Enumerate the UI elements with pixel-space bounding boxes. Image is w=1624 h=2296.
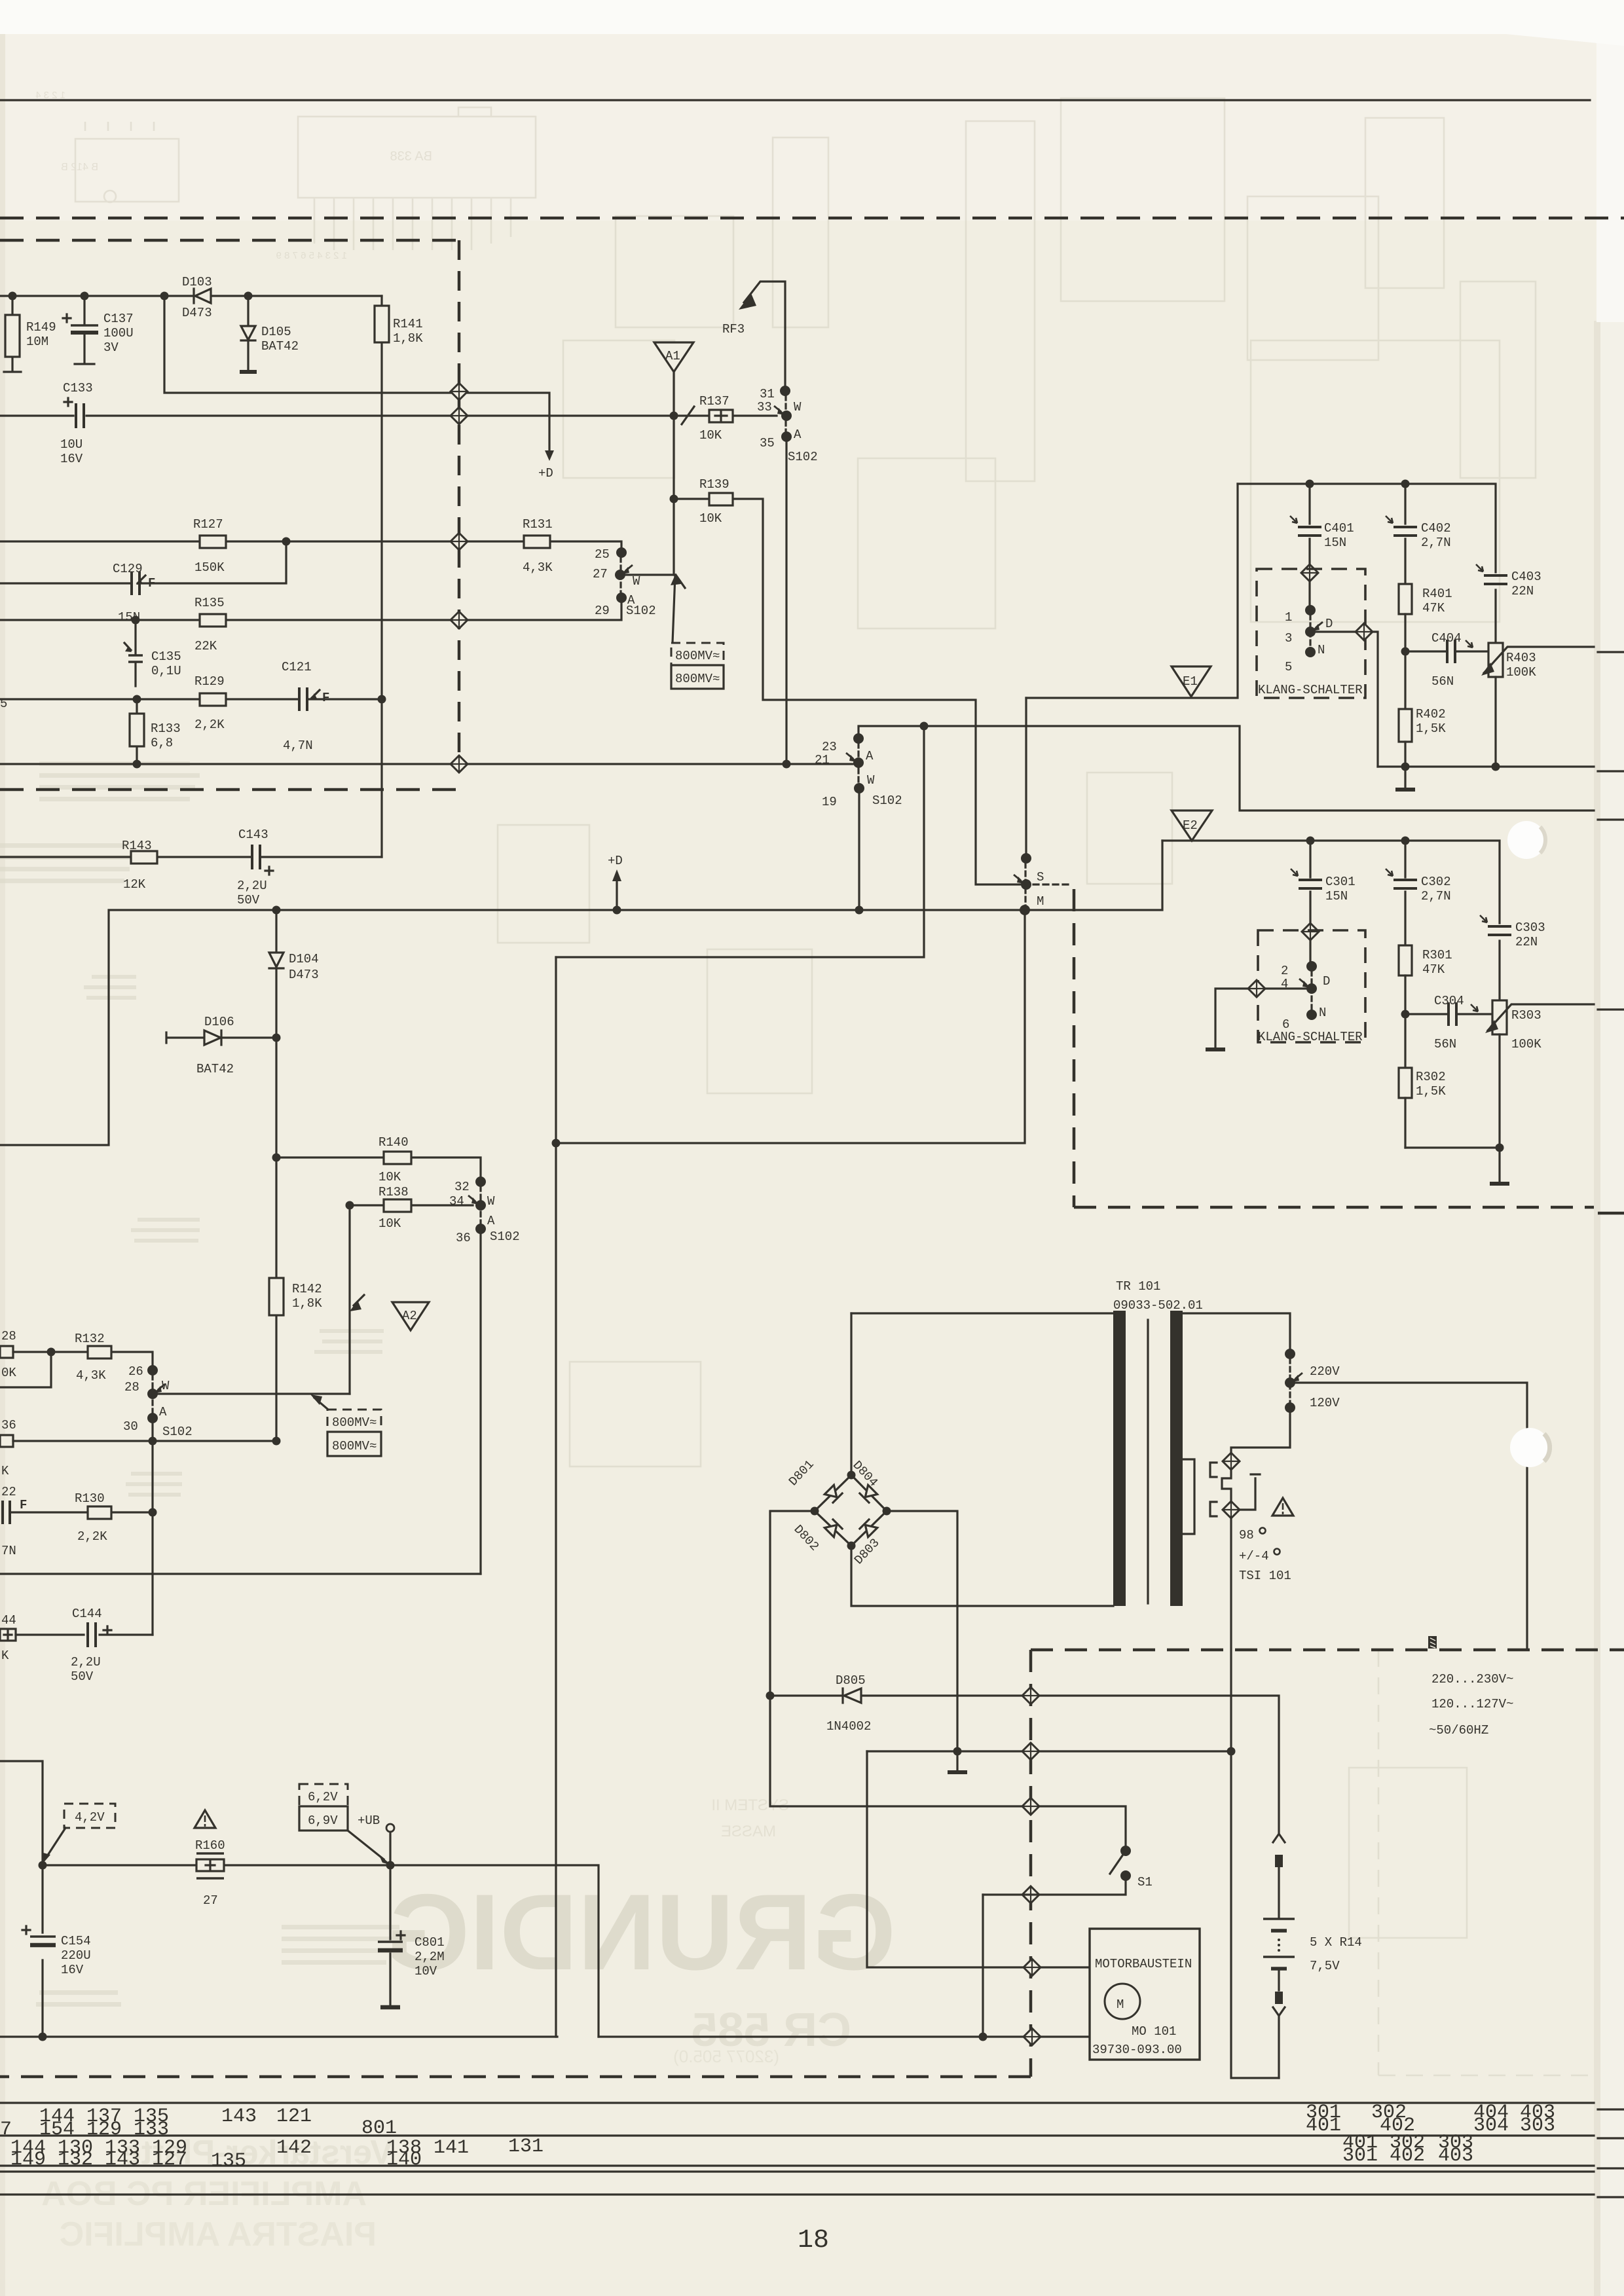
svg-text:S102: S102: [872, 793, 902, 808]
ground R402: [1404, 767, 1406, 788]
connector diamond D805: [1022, 1687, 1039, 1704]
svg-text:N: N: [1319, 1006, 1326, 1020]
svg-text:7,5V: 7,5V: [1310, 1959, 1340, 1973]
svg-text:C801: C801: [415, 1935, 445, 1950]
svg-text:30: 30: [123, 1419, 138, 1434]
svg-text:10U: 10U: [60, 437, 83, 452]
svg-text:RF3: RF3: [722, 322, 745, 337]
svg-text:2,7N: 2,7N: [1421, 889, 1451, 903]
diode D801: [824, 1485, 842, 1503]
wire pin23 up to klang2 feed: [858, 726, 1594, 811]
diode D803: [860, 1520, 877, 1537]
stub connector left C144: [0, 1629, 16, 1641]
wire 2201 row: [13, 1440, 276, 1442]
svg-text:TSI 101: TSI 101: [1239, 1569, 1291, 1583]
svg-text:50V: 50V: [237, 893, 260, 907]
section divider power dashed: [0, 1650, 1624, 2077]
resistor R131: [524, 536, 550, 548]
resistor R127: [200, 536, 226, 548]
svg-text:1 2 3 4 5 6 7 8 9: 1 2 3 4 5 6 7 8 9: [276, 250, 347, 261]
wire long ground vertical: [555, 957, 557, 2037]
resistor R140: [276, 1157, 481, 1182]
node pin35 column joins: [783, 760, 791, 769]
svg-text:F: F: [20, 1498, 27, 1512]
svg-text:1N4002: 1N4002: [826, 1719, 871, 1734]
svg-text:12K: 12K: [123, 877, 146, 892]
resistor R137: [709, 410, 733, 422]
capacitor C143: [252, 845, 260, 869]
svg-text:C133: C133: [63, 381, 93, 395]
svg-text:R403: R403: [1506, 651, 1536, 665]
svg-text:16V: 16V: [61, 1963, 84, 1977]
section divider dashed mid-right L: [1074, 889, 1594, 1207]
node D106/D104: [272, 1034, 281, 1042]
svg-text:S102: S102: [490, 1230, 520, 1244]
svg-text:29: 29: [595, 604, 610, 618]
wire secondary lower: [1231, 1408, 1290, 1454]
wire klang2 lever left: [1265, 987, 1312, 989]
svg-text:10K: 10K: [699, 511, 722, 526]
wire M net down to ground row: [556, 910, 1025, 1143]
svg-text:15N: 15N: [1325, 889, 1348, 903]
svg-text:22N: 22N: [1515, 935, 1538, 949]
svg-text:MO 101: MO 101: [1132, 2024, 1176, 2039]
warning triangle 2: [1272, 1498, 1293, 1516]
node +D arrow: [545, 450, 554, 461]
svg-text:A1: A1: [665, 349, 680, 363]
wire top rail: [0, 295, 382, 297]
svg-text:C154: C154: [61, 1934, 91, 1948]
antenna arrow RF3: [744, 282, 785, 391]
svg-text:10K: 10K: [378, 1216, 401, 1231]
svg-text:100K: 100K: [1506, 665, 1536, 680]
ground R302 row: [1498, 1148, 1500, 1182]
svg-text:MOTORBAUSTEIN: MOTORBAUSTEIN: [1095, 1957, 1192, 1971]
svg-text:2,2K: 2,2K: [194, 718, 225, 732]
svg-text:3: 3: [1285, 631, 1292, 646]
section divider dashed top full: [0, 217, 1624, 220]
svg-text:A: A: [159, 1405, 167, 1419]
node R130 column: [149, 1508, 157, 1517]
svg-text:15N: 15N: [1324, 536, 1346, 550]
svg-text:R143: R143: [122, 839, 152, 853]
svg-text:S102: S102: [162, 1425, 193, 1439]
svg-text:100U: 100U: [103, 326, 134, 340]
ground klang2: [1206, 1048, 1225, 1051]
wire R132 row: [13, 1352, 153, 1370]
potentiometer R303: [1492, 1000, 1507, 1034]
svg-text:7N: 7N: [1, 1544, 16, 1558]
punch hole 2: [1510, 1428, 1549, 1467]
svg-text:47K: 47K: [1422, 601, 1445, 615]
svg-text:6,8: 6,8: [151, 736, 173, 750]
svg-text:135: 135: [211, 2150, 246, 2172]
svg-text:5: 5: [0, 697, 7, 711]
diode D103: [195, 289, 211, 303]
connector diamond C133 wire: [451, 407, 468, 424]
svg-text:F: F: [322, 691, 329, 705]
wire long row 2404: [0, 1573, 481, 1575]
wire S102 lever row: [0, 763, 853, 765]
svg-text:M: M: [1037, 894, 1044, 909]
svg-text:R130: R130: [75, 1491, 105, 1506]
node C402: [1401, 480, 1410, 488]
resistor R130: [88, 1506, 111, 1519]
svg-text:C121: C121: [282, 660, 312, 674]
node rail-D105: [244, 292, 253, 301]
svg-text:401: 401: [1306, 2115, 1341, 2137]
voltage box 4,2V: [64, 1804, 115, 1828]
svg-text:2,2U: 2,2U: [71, 1655, 101, 1669]
svg-text:C302: C302: [1421, 875, 1451, 889]
node C401: [1306, 480, 1314, 488]
wire M row: [0, 910, 1025, 1145]
connector diamond motor return: [1024, 2028, 1041, 2045]
node R402 gnd: [1401, 763, 1410, 771]
svg-text:GRUNDIG: GRUNDIG: [386, 1872, 896, 1992]
node 30 column: [149, 1437, 157, 1446]
svg-text:B 412 B: B 412 B: [61, 162, 98, 173]
svg-text:150K: 150K: [194, 560, 225, 575]
svg-text:MASSE: MASSE: [721, 1823, 776, 1840]
svg-text:800MV≈: 800MV≈: [675, 649, 720, 663]
resistor R143: [131, 851, 157, 864]
node C301: [1306, 837, 1315, 845]
wire R138 column down: [348, 1205, 350, 1394]
svg-text:1,5K: 1,5K: [1416, 1084, 1446, 1099]
svg-text:403: 403: [1438, 2145, 1473, 2167]
arrow into A2 line: [350, 1300, 361, 1311]
resistor R135: [200, 614, 226, 627]
wire secondary return row: [867, 1750, 1231, 1752]
svg-text:C129: C129: [113, 562, 143, 576]
svg-text:4,3K: 4,3K: [523, 560, 553, 575]
switch klang2 pins 2/4/6: [1309, 940, 1311, 962]
wire A1 wiper slant: [673, 575, 675, 643]
resistor R149: [4, 296, 21, 372]
svg-text:301 402: 301 402: [1342, 2145, 1425, 2167]
svg-text:6,2V: 6,2V: [308, 1790, 338, 1804]
connector diamond S1 return: [1022, 1886, 1039, 1903]
capacitor C129: [0, 541, 286, 583]
svg-text:D105: D105: [261, 325, 291, 339]
wire R139: [674, 499, 1022, 884]
thermal fuse TSI101: [1210, 1463, 1217, 1477]
wire wiper 27 to A1 line: [620, 574, 675, 575]
svg-text:18: 18: [798, 2226, 829, 2255]
node C404: [1401, 647, 1410, 656]
potentiometer R403: [1488, 643, 1503, 677]
svg-text:R401: R401: [1422, 587, 1452, 601]
svg-text:~50/60HZ: ~50/60HZ: [1429, 1723, 1488, 1738]
wire S/M column: [1025, 698, 1027, 858]
node takeoff to level chain: [920, 722, 929, 731]
capacitor C801: [389, 1865, 391, 2005]
amp arrow E2: [1172, 811, 1212, 841]
node R403 bottom: [1492, 763, 1500, 771]
svg-text:32: 32: [454, 1180, 470, 1194]
svg-text:R137: R137: [699, 394, 729, 409]
connector diamond C401: [1301, 564, 1318, 581]
svg-text:19: 19: [822, 795, 837, 809]
capacitor C301: [1309, 841, 1311, 923]
svg-text:S1: S1: [1137, 1875, 1153, 1889]
node R129 wire / R133: [133, 695, 141, 704]
svg-text:2,2M: 2,2M: [415, 1950, 445, 1964]
svg-text:A2: A2: [402, 1309, 417, 1323]
diode D804: [860, 1485, 877, 1503]
wire R127/R131: [0, 541, 621, 553]
svg-text:C144: C144: [72, 1607, 102, 1621]
svg-text:35: 35: [760, 436, 775, 450]
node A1/R139: [670, 495, 678, 503]
svg-text:1,8K: 1,8K: [292, 1296, 322, 1311]
svg-text:2,2U: 2,2U: [237, 879, 267, 893]
node pin19 joins: [855, 906, 864, 915]
node C304: [1401, 1010, 1410, 1019]
svg-text:S: S: [1037, 870, 1044, 884]
node rail-R149: [9, 292, 17, 301]
punch hole 1: [1507, 821, 1545, 859]
svg-text:28: 28: [1, 1329, 16, 1343]
level box 800MV dashed (ch1): [671, 643, 724, 665]
svg-text:K: K: [1, 1649, 9, 1663]
svg-text:220...230V~: 220...230V~: [1431, 1672, 1513, 1686]
svg-text:4,3K: 4,3K: [76, 1368, 106, 1383]
svg-text:56N: 56N: [1431, 674, 1454, 689]
svg-text:M: M: [1116, 1997, 1124, 2012]
node gnd tap: [953, 1747, 962, 1756]
resistor R141: [380, 296, 382, 857]
capacitor C121: [299, 687, 307, 711]
svg-text:D103: D103: [182, 275, 212, 289]
svg-text:F: F: [148, 576, 155, 591]
wire bridge right: [887, 1511, 957, 1751]
diode D105: [247, 296, 249, 371]
svg-text:28: 28: [124, 1380, 139, 1394]
wire E2 row: [1162, 841, 1500, 1000]
connector diamond C301: [1302, 923, 1319, 940]
node A1/C133: [670, 412, 678, 420]
amp arrow A1: [654, 342, 693, 372]
transformer TR101 core: [1113, 1311, 1126, 1606]
wire R130 row: [10, 1511, 153, 1513]
svg-text:R127: R127: [193, 517, 223, 532]
svg-text:10V: 10V: [415, 1964, 437, 1978]
wire D104 column down: [275, 1038, 277, 1441]
wire C133 row: [0, 414, 777, 416]
svg-text:303: 303: [1520, 2115, 1555, 2137]
node D104 top: [272, 906, 281, 915]
wire klang1 top: [1238, 484, 1496, 643]
capacitor C404: [1405, 650, 1488, 652]
node R303 gnd: [1496, 1144, 1504, 1152]
svg-text:C303: C303: [1515, 920, 1545, 935]
resistor R401: [1399, 584, 1412, 614]
secondary winding lower loop: [1183, 1459, 1194, 1534]
svg-text:27: 27: [203, 1893, 218, 1908]
switch S102 pins 31/33/35: [780, 386, 790, 396]
svg-text:220V: 220V: [1310, 1364, 1340, 1379]
switch S102 pins 32/34/36: [475, 1176, 486, 1187]
wire S feed dashed right: [1033, 883, 1073, 885]
capacitor C137: [75, 296, 94, 364]
svg-text:50V: 50V: [71, 1669, 94, 1684]
node rail-C137: [81, 292, 89, 301]
svg-text:N: N: [1318, 643, 1325, 657]
ground C801: [380, 2005, 400, 2010]
supply node +UB: [386, 1824, 394, 1832]
wire S1 return vertical: [982, 1895, 984, 2037]
svg-text:121: 121: [276, 2105, 312, 2128]
section divider dashed mid-left: [0, 788, 460, 792]
wire bridge left to box: [770, 1511, 1126, 1851]
svg-text:0K: 0K: [1, 1366, 16, 1380]
svg-text:R135: R135: [194, 596, 225, 610]
capacitor C135: [134, 620, 136, 686]
wire level chain down-left: [556, 726, 924, 957]
svg-text:26: 26: [128, 1364, 143, 1379]
capacitor C401: [1308, 484, 1310, 564]
node C154 rail: [39, 2033, 47, 2041]
svg-text:+/-4: +/-4: [1239, 1549, 1269, 1563]
svg-text:220U: 220U: [61, 1948, 91, 1963]
svg-text:140: 140: [386, 2149, 422, 2171]
svg-text:TR 101: TR 101: [1116, 1279, 1160, 1294]
wire A1 vertical: [673, 372, 674, 575]
resistor R129: [200, 693, 226, 706]
switch S/M: [1021, 853, 1031, 864]
svg-text:W: W: [867, 773, 875, 788]
svg-text:R303: R303: [1511, 1008, 1541, 1023]
wire bridge top: [850, 1313, 852, 1475]
svg-text:143: 143: [221, 2105, 257, 2128]
svg-text:BAT42: BAT42: [261, 339, 299, 354]
svg-text:5: 5: [1285, 660, 1292, 674]
svg-text:34: 34: [449, 1194, 464, 1209]
svg-text:R131: R131: [523, 517, 553, 532]
supply arrow +D up: [616, 880, 618, 910]
svg-text:D: D: [1325, 617, 1333, 631]
wire lever 28 to A2 column: [153, 1393, 350, 1394]
node +D up: [613, 906, 621, 915]
svg-text:R302: R302: [1416, 1070, 1446, 1084]
connector diamond lever row: [451, 756, 468, 773]
svg-text:W: W: [487, 1194, 495, 1209]
svg-text:R133: R133: [151, 721, 181, 736]
level box 800MV solid (ch1): [671, 665, 724, 689]
svg-text:36: 36: [1, 1418, 16, 1432]
svg-text:09033-502.01: 09033-502.01: [1113, 1298, 1203, 1313]
svg-text:5 X R14: 5 X R14: [1310, 1935, 1362, 1950]
svg-text:56N: 56N: [1434, 1037, 1456, 1051]
svg-text:(32077 505.0): (32077 505.0): [673, 2047, 779, 2066]
svg-text:39730-093.00: 39730-093.00: [1092, 2043, 1182, 2057]
wire pin19 down to M-row: [858, 788, 860, 910]
svg-text:4,2V: 4,2V: [75, 1810, 105, 1825]
svg-text:E2: E2: [1183, 818, 1198, 833]
amp arrow A2: [392, 1302, 429, 1330]
resistor R138: [350, 1204, 473, 1206]
svg-text:R301: R301: [1422, 948, 1452, 962]
svg-text:R149: R149: [26, 320, 56, 335]
faint mirrored text blocks: [0, 761, 403, 2007]
wire klang1 lever out: [1310, 630, 1356, 632]
wire ground rail: [0, 2035, 1090, 2037]
svg-text:47K: 47K: [1422, 962, 1445, 977]
diode D104: [275, 910, 277, 1038]
svg-text:120V: 120V: [1310, 1396, 1340, 1410]
node R140 takeoff: [272, 1154, 281, 1162]
svg-text:R142: R142: [292, 1282, 322, 1296]
wire primary top: [851, 1312, 1113, 1314]
wire R129/C121: [0, 698, 382, 700]
svg-text:C404: C404: [1431, 631, 1462, 646]
wire S1 bottom row: [983, 1876, 1126, 1895]
svg-text:R129: R129: [194, 674, 225, 689]
svg-text:A: A: [487, 1214, 495, 1228]
wire R302/R303 bottom: [1405, 1146, 1500, 1148]
svg-text:R132: R132: [75, 1332, 105, 1346]
warning triangle: [194, 1810, 215, 1828]
node R127/C129: [282, 538, 291, 546]
resistor R142: [269, 1278, 284, 1315]
wire R160 row: [43, 1865, 599, 2037]
wire R402 row: [1378, 765, 1594, 767]
connector diamond klang2 out: [1248, 980, 1265, 997]
svg-text:21: 21: [815, 753, 830, 767]
capacitor C403: [1484, 575, 1507, 584]
svg-text:800MV≈: 800MV≈: [332, 1439, 377, 1453]
capacitor C304: [1405, 1013, 1492, 1015]
svg-text:D473: D473: [289, 968, 319, 982]
wire bridge bottom: [851, 1546, 1113, 1606]
capacitor C154: [30, 1935, 56, 1938]
node C135: [132, 616, 140, 625]
svg-text:D805: D805: [836, 1673, 866, 1688]
svg-text:PIASTRA AMPLIFIC: PIASTRA AMPLIFIC: [60, 2215, 377, 2253]
amp arrow E1: [1172, 666, 1211, 697]
svg-text:36: 36: [456, 1231, 471, 1245]
wire pin36 down: [479, 1229, 481, 1574]
level box 800MV dashed (ch2): [327, 1410, 381, 1432]
capacitor C144: [16, 1633, 153, 1635]
switch S102 pins 25/27/29: [616, 547, 627, 558]
wire klang1 out down: [1373, 632, 1378, 767]
svg-text:800MV≈: 800MV≈: [332, 1415, 377, 1430]
wire R135: [0, 598, 621, 620]
wire pin35 down: [785, 437, 787, 764]
svg-text:10K: 10K: [378, 1170, 401, 1184]
svg-text:D106: D106: [204, 1015, 234, 1029]
svg-text:R160: R160: [195, 1838, 225, 1853]
wire klang2 out to ground: [1215, 989, 1248, 1048]
svg-text:1,5K: 1,5K: [1416, 721, 1446, 736]
node R142 bottom: [272, 1437, 281, 1446]
svg-text:6,9V: 6,9V: [308, 1813, 338, 1828]
diode D802: [824, 1520, 842, 1537]
svg-text:2,2K: 2,2K: [77, 1529, 107, 1544]
section divider vertical dashed: [458, 240, 461, 757]
resistor R132: [88, 1346, 111, 1358]
node rail +D takeoff: [160, 292, 169, 301]
switch klang1 pins 1/3/5: [1308, 581, 1310, 606]
resistor R301: [1399, 945, 1412, 975]
klang-schalter box 1: [1257, 569, 1365, 698]
svg-text:R138: R138: [378, 1185, 409, 1199]
svg-text:R402: R402: [1416, 707, 1446, 721]
klang-schalter box 2: [1258, 930, 1365, 1042]
